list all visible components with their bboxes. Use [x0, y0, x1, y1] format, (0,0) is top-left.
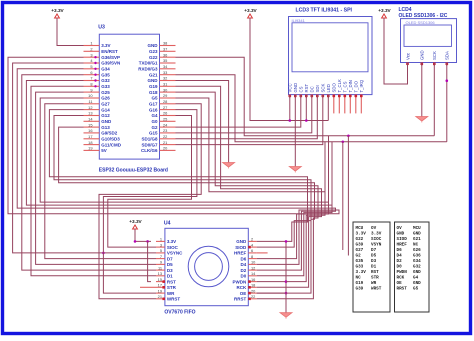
wire U4 PWDN to GND rail — [257, 281, 286, 283]
U4 pin 12 D2 — [248, 269, 256, 271]
svg-text:GND: GND — [236, 239, 247, 244]
wire U4 3.3V — [135, 229, 151, 242]
oled LCD4 box — [401, 19, 457, 63]
U4 pin 7 D7 — [156, 258, 165, 260]
svg-text:3.3V: 3.3V — [101, 43, 110, 48]
svg-text:VCC: VCC — [288, 83, 293, 92]
svg-text:G39: G39 — [356, 287, 364, 292]
svg-text:G12: G12 — [101, 113, 110, 118]
wire G13 to U4 OE — [59, 127, 315, 293]
svg-text:G2: G2 — [151, 125, 158, 130]
wire G5 to U4 PWDN row — [176, 98, 326, 282]
svg-text:G17: G17 — [149, 102, 158, 107]
svg-text:SDI: SDI — [315, 85, 320, 92]
wire U4 OE to GND rail — [257, 292, 286, 294]
svg-text:PWDN: PWDN — [397, 270, 408, 275]
LCD3 NC stub T_DO — [355, 95, 357, 114]
ground — [280, 313, 292, 318]
svg-text:OLED SSD1306: OLED SSD1306 — [406, 20, 436, 25]
wire G27 to U4 D7 — [45, 104, 156, 259]
U3 pin 16 G9/SD2 — [84, 132, 100, 134]
svg-text:VSYNC: VSYNC — [167, 251, 183, 256]
svg-text:G39/SVN: G39/SVN — [101, 61, 120, 66]
U3 pin 37 G23 — [160, 50, 176, 52]
svg-text:G21: G21 — [413, 237, 421, 242]
wire SD0 row to LCD3 SCK — [176, 95, 323, 145]
wire G26 to U4 D6 — [40, 98, 328, 259]
svg-text:G4: G4 — [151, 113, 158, 118]
U3 pin 3 G36/SVP — [84, 56, 100, 58]
wire G35 to U4 D3 — [22, 75, 156, 270]
svg-text:G2: G2 — [356, 254, 362, 259]
svg-text:SCK: SCK — [321, 84, 326, 93]
U3 pin 17 G10/SD3 — [84, 138, 100, 140]
svg-text:3.3V: 3.3V — [371, 232, 382, 237]
svg-text:STR: STR — [167, 285, 177, 290]
svg-text:SD1/G8: SD1/G8 — [141, 137, 158, 142]
svg-text:SIOC: SIOC — [167, 245, 179, 250]
U3 pin 31 G19 — [160, 85, 176, 87]
U4 pin 21 WRST — [156, 298, 165, 300]
svg-text:31: 31 — [163, 82, 167, 87]
U3 pin 14 GND — [84, 120, 100, 122]
svg-text:3: 3 — [90, 52, 92, 57]
wire G4 to U4 SIOC — [108, 116, 192, 248]
svg-text:G27: G27 — [101, 102, 110, 107]
power +3.3V symbol — [55, 14, 60, 18]
svg-text:9: 9 — [160, 260, 162, 265]
svg-text:D1: D1 — [167, 274, 173, 279]
svg-text:G35: G35 — [101, 72, 110, 77]
svg-text:8: 8 — [90, 82, 92, 87]
svg-text:LED: LED — [326, 84, 331, 92]
svg-text:SDO: SDO — [332, 83, 337, 93]
wire riser a — [324, 142, 326, 192]
svg-text:T_IRQ: T_IRQ — [359, 79, 364, 92]
svg-text:G36/SVP: G36/SVP — [101, 55, 120, 60]
svg-text:G34: G34 — [413, 259, 421, 264]
svg-text:OE: OE — [240, 291, 247, 296]
wire G39 to U4 VSYNC — [13, 63, 156, 253]
svg-text:27: 27 — [163, 105, 167, 110]
svg-text:17: 17 — [158, 283, 162, 288]
svg-text:D5: D5 — [167, 262, 173, 267]
wire G14 to GND row join — [49, 110, 307, 242]
svg-text:28: 28 — [163, 99, 167, 104]
svg-text:G5: G5 — [413, 287, 419, 292]
svg-text:G36: G36 — [413, 254, 421, 259]
svg-text:18: 18 — [251, 283, 255, 288]
svg-text:RRST: RRST — [234, 297, 247, 302]
junction U4 3.3V b — [146, 240, 149, 243]
svg-text:HREF: HREF — [397, 243, 408, 248]
svg-text:3: 3 — [160, 242, 162, 247]
wire G16 to U4 WR — [103, 110, 196, 294]
svg-text:G33: G33 — [101, 84, 110, 89]
svg-text:OV: OV — [371, 226, 377, 231]
junction VSYNC cross — [102, 252, 105, 255]
wire G22 SCL to OLED SCK — [176, 57, 435, 136]
U3 pin 8 G33 — [84, 85, 100, 87]
svg-text:2: 2 — [251, 237, 253, 242]
svg-text:38: 38 — [163, 41, 167, 46]
svg-text:GND: GND — [101, 119, 112, 124]
svg-text:6: 6 — [90, 70, 92, 75]
table OV-MCU — [395, 222, 430, 312]
svg-text:MCU: MCU — [413, 226, 421, 231]
svg-text:G32: G32 — [413, 265, 421, 270]
U4 pin 9 D5 — [156, 263, 165, 265]
U3 pin 26 G4 — [160, 115, 176, 117]
LCD3 NC stub T_CLK — [338, 95, 340, 114]
svg-text:RST: RST — [371, 270, 379, 275]
svg-text:G33: G33 — [356, 265, 364, 270]
table MCU-OV — [353, 222, 390, 312]
svg-text:15: 15 — [88, 122, 92, 127]
svg-text:21: 21 — [163, 140, 167, 145]
U3 pin 2 EN/RST — [84, 50, 100, 52]
stub U4 STR NC — [140, 286, 156, 288]
U4 pin 18 RCK — [248, 286, 256, 288]
U3 pin 27 G16 — [160, 109, 176, 111]
LCD4 pin pads — [406, 62, 409, 65]
svg-text:G21: G21 — [149, 72, 158, 77]
stub U4 HREF NC — [257, 252, 268, 254]
svg-text:G14: G14 — [101, 107, 110, 112]
U4 pin 10 D4 — [248, 263, 256, 265]
wire SDA branch down — [342, 142, 344, 250]
svg-text:36: 36 — [163, 52, 167, 57]
svg-text:NC: NC — [413, 243, 419, 248]
junction SDA — [446, 79, 449, 82]
svg-text:EN/RST: EN/RST — [101, 49, 118, 54]
svg-text:7: 7 — [90, 76, 92, 81]
svg-text:37: 37 — [163, 47, 167, 52]
U3 pin 36 G22 — [160, 56, 176, 58]
svg-text:3.3V: 3.3V — [167, 239, 176, 244]
svg-text:GND: GND — [148, 43, 159, 48]
svg-text:6: 6 — [251, 248, 253, 253]
U4 pin 11 D3 — [156, 269, 165, 271]
svg-text:RRST: RRST — [397, 287, 408, 292]
svg-text:32: 32 — [163, 76, 167, 81]
svg-text:VSYN: VSYN — [371, 243, 382, 248]
svg-text:2: 2 — [90, 47, 92, 52]
wire G33 to U4 D1 — [31, 86, 156, 275]
U4 pin 13 D1 — [156, 275, 165, 277]
svg-text:G23: G23 — [149, 49, 158, 54]
svg-text:Vcc: Vcc — [405, 52, 410, 60]
svg-text:GND: GND — [420, 50, 425, 60]
svg-text:D3: D3 — [167, 268, 173, 273]
svg-text:G22: G22 — [356, 237, 364, 242]
power +3.3V symbol — [248, 14, 253, 18]
svg-text:WR: WR — [371, 281, 377, 286]
U3 pin 20 CLK/G6 — [160, 149, 176, 151]
svg-text:GND: GND — [413, 270, 421, 275]
svg-text:RXD0/G3: RXD0/G3 — [138, 67, 158, 72]
svg-text:GND: GND — [293, 83, 298, 93]
svg-text:+3.3V: +3.3V — [51, 8, 64, 13]
svg-text:G9/SD2: G9/SD2 — [101, 131, 118, 136]
svg-text:G19: G19 — [149, 84, 158, 89]
U3 pin 4 G39/SVN — [84, 62, 100, 64]
U3 pin 38 GND — [160, 45, 176, 47]
svg-text:SD0/G7: SD0/G7 — [141, 142, 158, 147]
LCD3 NC stub SDO — [333, 95, 335, 114]
svg-text:7: 7 — [160, 254, 162, 259]
U3 pin 21 SD0/G7 — [160, 144, 176, 146]
svg-text:12: 12 — [251, 265, 255, 270]
svg-text:GND: GND — [397, 232, 405, 237]
svg-text:35: 35 — [163, 58, 167, 63]
svg-text:9: 9 — [90, 87, 92, 92]
svg-text:D6: D6 — [397, 248, 403, 253]
wire G17 to U4 WRST — [99, 104, 201, 299]
svg-text:OE: OE — [397, 281, 403, 286]
junction RST rail — [305, 119, 308, 122]
svg-text:12: 12 — [88, 105, 92, 110]
U4 pin 2 GND — [248, 240, 256, 242]
svg-text:5: 5 — [160, 248, 162, 253]
svg-text:16: 16 — [251, 277, 255, 282]
junction SCL branch — [347, 135, 350, 138]
svg-text:RCK: RCK — [397, 276, 405, 281]
wire G18 to U4 RRST — [176, 92, 319, 299]
svg-text:LCD4: LCD4 — [399, 7, 412, 13]
svg-text:WR: WR — [167, 291, 175, 296]
svg-text:G19: G19 — [356, 281, 364, 286]
junction PWDN gnd — [285, 280, 288, 283]
svg-text:22: 22 — [251, 294, 255, 299]
svg-text:ILI9341: ILI9341 — [292, 18, 306, 23]
junction U4 3.3V a — [134, 240, 137, 243]
svg-text:SIOD: SIOD — [397, 237, 408, 242]
wire U4 GND rail — [257, 241, 286, 312]
svg-text:TXD0/G1: TXD0/G1 — [139, 61, 158, 66]
svg-text:+3.3V: +3.3V — [244, 8, 257, 13]
svg-text:SDA: SDA — [445, 51, 450, 60]
svg-text:D2: D2 — [397, 259, 403, 264]
svg-text:RST: RST — [304, 84, 309, 93]
svg-text:D2: D2 — [241, 268, 247, 273]
wire G19 to U4 RCK — [176, 86, 322, 287]
svg-text:MCU: MCU — [356, 226, 364, 231]
U3 pin 12 G14 — [84, 109, 100, 111]
svg-text:16: 16 — [88, 128, 92, 133]
camera U4 lens outer — [188, 246, 229, 287]
svg-text:21: 21 — [158, 294, 162, 299]
wire G15 row to LCD3 DC — [176, 95, 312, 133]
U4 pin 4 SIOD — [248, 246, 256, 248]
svg-text:NC: NC — [356, 276, 362, 281]
U3 pin 15 G13 — [84, 126, 100, 128]
svg-text:SIOC: SIOC — [371, 237, 382, 242]
junction VCC rail — [289, 119, 292, 122]
svg-text:CLK/G6: CLK/G6 — [141, 148, 158, 153]
ground — [289, 167, 301, 172]
svg-text:D4: D4 — [241, 262, 247, 267]
svg-text:5V: 5V — [101, 148, 107, 153]
wire G12 to U4 SIOD — [54, 116, 311, 248]
svg-text:5: 5 — [90, 64, 92, 69]
junction SDA branch — [342, 141, 345, 144]
U3 pin junction dots — [94, 56, 96, 58]
svg-text:26: 26 — [163, 111, 167, 116]
svg-text:GND: GND — [148, 78, 159, 83]
svg-text:ESP32 Goouuu-ESP32 Board: ESP32 Goouuu-ESP32 Board — [99, 168, 168, 174]
svg-text:G13: G13 — [101, 125, 110, 130]
svg-text:22: 22 — [163, 134, 167, 139]
svg-text:LCD3 TFT ILI9341 - SPI: LCD3 TFT ILI9341 - SPI — [296, 8, 353, 14]
svg-text:DC: DC — [310, 86, 315, 92]
svg-text:D6: D6 — [241, 256, 247, 261]
svg-text:D0: D0 — [397, 265, 403, 270]
ground — [416, 117, 428, 122]
svg-text:T_CS: T_CS — [343, 81, 348, 92]
svg-text:GND: GND — [413, 232, 421, 237]
wire G32 to U4 D0 — [26, 81, 332, 276]
svg-text:G5: G5 — [151, 96, 158, 101]
U3 pin 7 G32 — [84, 80, 100, 82]
power +3.3V symbol — [133, 225, 138, 229]
U3 pin 33 G21 — [160, 74, 176, 76]
camera U4 box — [165, 228, 248, 305]
wire LCD4 SCK drop — [433, 63, 435, 136]
U3 pin 11 G27 — [84, 103, 100, 105]
svg-text:G35: G35 — [356, 259, 364, 264]
wire LCD4 SDA drop — [446, 63, 448, 142]
svg-text:SIOD: SIOD — [235, 245, 247, 250]
svg-text:GND: GND — [413, 281, 421, 286]
junction OE gnd — [285, 292, 288, 295]
svg-text:HREF: HREF — [234, 251, 247, 256]
svg-text:D3: D3 — [371, 259, 377, 264]
U4 pin 17 STR — [156, 286, 165, 288]
svg-text:3.3V: 3.3V — [356, 270, 367, 275]
svg-text:17: 17 — [88, 134, 92, 139]
power +3.3V symbol — [382, 14, 387, 18]
LCD3 pin pads — [289, 95, 292, 98]
U4 pin 1 3.3V — [156, 240, 165, 242]
U4 pin 5 VSYNC — [156, 252, 165, 254]
svg-text:G26: G26 — [101, 96, 110, 101]
svg-text:G22: G22 — [149, 55, 158, 60]
U3 pin 32 GND — [160, 80, 176, 82]
svg-text:13: 13 — [158, 271, 162, 276]
U3 pin 13 G12 — [84, 115, 100, 117]
svg-text:1: 1 — [160, 237, 162, 242]
U3 pin 23 G15 — [160, 132, 176, 134]
svg-text:23: 23 — [163, 128, 167, 133]
U4 pin 16 PWDN — [248, 281, 256, 283]
U3 pin 25 G0 — [160, 120, 176, 122]
svg-text:STR: STR — [371, 276, 379, 281]
svg-text:18: 18 — [88, 140, 92, 145]
svg-text:OV7670 FIFO: OV7670 FIFO — [164, 310, 195, 316]
svg-text:33: 33 — [163, 70, 167, 75]
svg-text:T_DIN: T_DIN — [348, 80, 353, 92]
U3 pin 30 G18 — [160, 91, 176, 93]
svg-text:U4: U4 — [164, 221, 171, 227]
svg-text:U3: U3 — [98, 25, 105, 31]
U4 pin 6 HREF — [248, 252, 256, 254]
U3 pin 24 G2 — [160, 126, 176, 128]
wire LCD4 Vcc to +3.3V — [384, 18, 408, 84]
U3 pin 18 G11/CMD — [84, 144, 100, 146]
svg-text:OV: OV — [397, 226, 403, 231]
svg-text:3.3V: 3.3V — [356, 232, 367, 237]
wire U3 GND pin32 to ground — [176, 81, 229, 163]
U4 pin 3 SIOC — [156, 246, 165, 248]
wire SCL branch down — [347, 136, 349, 256]
svg-text:G15: G15 — [149, 131, 158, 136]
svg-text:G11/CMD: G11/CMD — [101, 142, 122, 147]
U3 pin 34 RXD0/G3 — [160, 68, 176, 70]
lcd LCD3 screen — [292, 23, 368, 72]
LCD3 NC stub T_DIN — [349, 95, 351, 114]
wire SD1 row to LCD3 SDI — [176, 95, 318, 139]
svg-text:+3.3V: +3.3V — [129, 219, 142, 224]
svg-text:15: 15 — [158, 277, 162, 282]
LCD3 NC stub T_CS — [344, 95, 346, 114]
camera U4 lens inner — [195, 253, 223, 281]
U3 pin 22 SD1/G8 — [160, 138, 176, 140]
wire G34 to U4 D2 — [17, 69, 335, 270]
wire LCD3 VCC drop — [289, 95, 291, 121]
svg-text:SCK: SCK — [432, 51, 437, 60]
LCD3 NC stub T_IRQ — [360, 95, 362, 114]
junction gnd row — [285, 240, 288, 243]
svg-text:8: 8 — [251, 254, 253, 259]
svg-text:WRST: WRST — [167, 297, 180, 302]
wire 3.3V rail LCD3 — [250, 18, 328, 121]
svg-text:G16: G16 — [149, 107, 158, 112]
svg-text:29: 29 — [163, 93, 167, 98]
wire LCD3 GND to ground — [294, 95, 296, 167]
svg-text:19: 19 — [158, 288, 162, 293]
svg-text:+3.3V: +3.3V — [378, 8, 391, 13]
U4 pin 20 OE — [248, 292, 256, 294]
svg-text:G0: G0 — [151, 119, 158, 124]
svg-text:T_CLK: T_CLK — [337, 79, 342, 93]
svg-text:13: 13 — [88, 111, 92, 116]
svg-text:WRST: WRST — [371, 287, 382, 292]
U3 pin 10 G26 — [84, 97, 100, 99]
svg-text:G25: G25 — [101, 90, 110, 95]
wire LCD3 LED drop — [327, 95, 329, 121]
U3 pin 5 G34 — [84, 68, 100, 70]
svg-text:D7: D7 — [371, 248, 377, 253]
U4 pin 22 RRST — [248, 298, 256, 300]
U3 pin 6 G35 — [84, 74, 100, 76]
U3 pin 19 5V — [84, 149, 100, 151]
U3 pin 35 TXD0/G1 — [160, 62, 176, 64]
ground — [223, 163, 235, 168]
U3 pin 28 G17 — [160, 103, 176, 105]
svg-text:19: 19 — [88, 146, 92, 151]
svg-text:PWDN: PWDN — [233, 279, 247, 284]
svg-text:D1: D1 — [371, 265, 377, 270]
U4 pin 19 WR — [156, 292, 165, 294]
svg-text:D0: D0 — [241, 274, 247, 279]
svg-text:RST: RST — [167, 279, 176, 284]
U3 pin 1 3.3V — [84, 45, 100, 47]
oled LCD4 screen — [404, 25, 452, 46]
wire G21 SDA to OLED SDA — [176, 75, 447, 142]
U4 pin 8 D6 — [248, 258, 256, 260]
wire riser b — [328, 136, 330, 202]
